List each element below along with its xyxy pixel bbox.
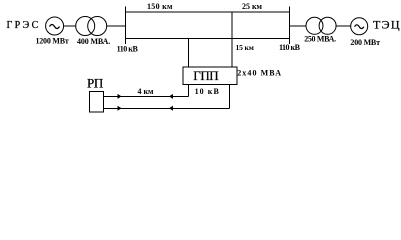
- svg-text:250 МВА.: 250 МВА.: [304, 35, 336, 44]
- svg-text:1200 МВт: 1200 МВт: [36, 37, 69, 46]
- svg-text:10 кВ: 10 кВ: [195, 87, 220, 96]
- svg-text:15 км: 15 км: [236, 43, 254, 52]
- svg-text:400 МВА.: 400 МВА.: [77, 37, 110, 46]
- svg-text:РП: РП: [87, 75, 103, 90]
- svg-text:2х40 МВА: 2х40 МВА: [237, 69, 281, 78]
- svg-text:ТЭЦ: ТЭЦ: [373, 18, 400, 32]
- svg-text:150 км: 150 км: [147, 2, 173, 11]
- svg-text:ГРЭС: ГРЭС: [7, 20, 39, 31]
- svg-text:4 км: 4 км: [138, 87, 155, 96]
- svg-text:25 км: 25 км: [242, 2, 263, 11]
- svg-text:110 кВ: 110 кВ: [117, 44, 139, 53]
- svg-text:ГПП: ГПП: [193, 68, 218, 83]
- svg-text:200 МВт: 200 МВт: [350, 38, 380, 47]
- svg-text:110 кВ: 110 кВ: [279, 43, 301, 52]
